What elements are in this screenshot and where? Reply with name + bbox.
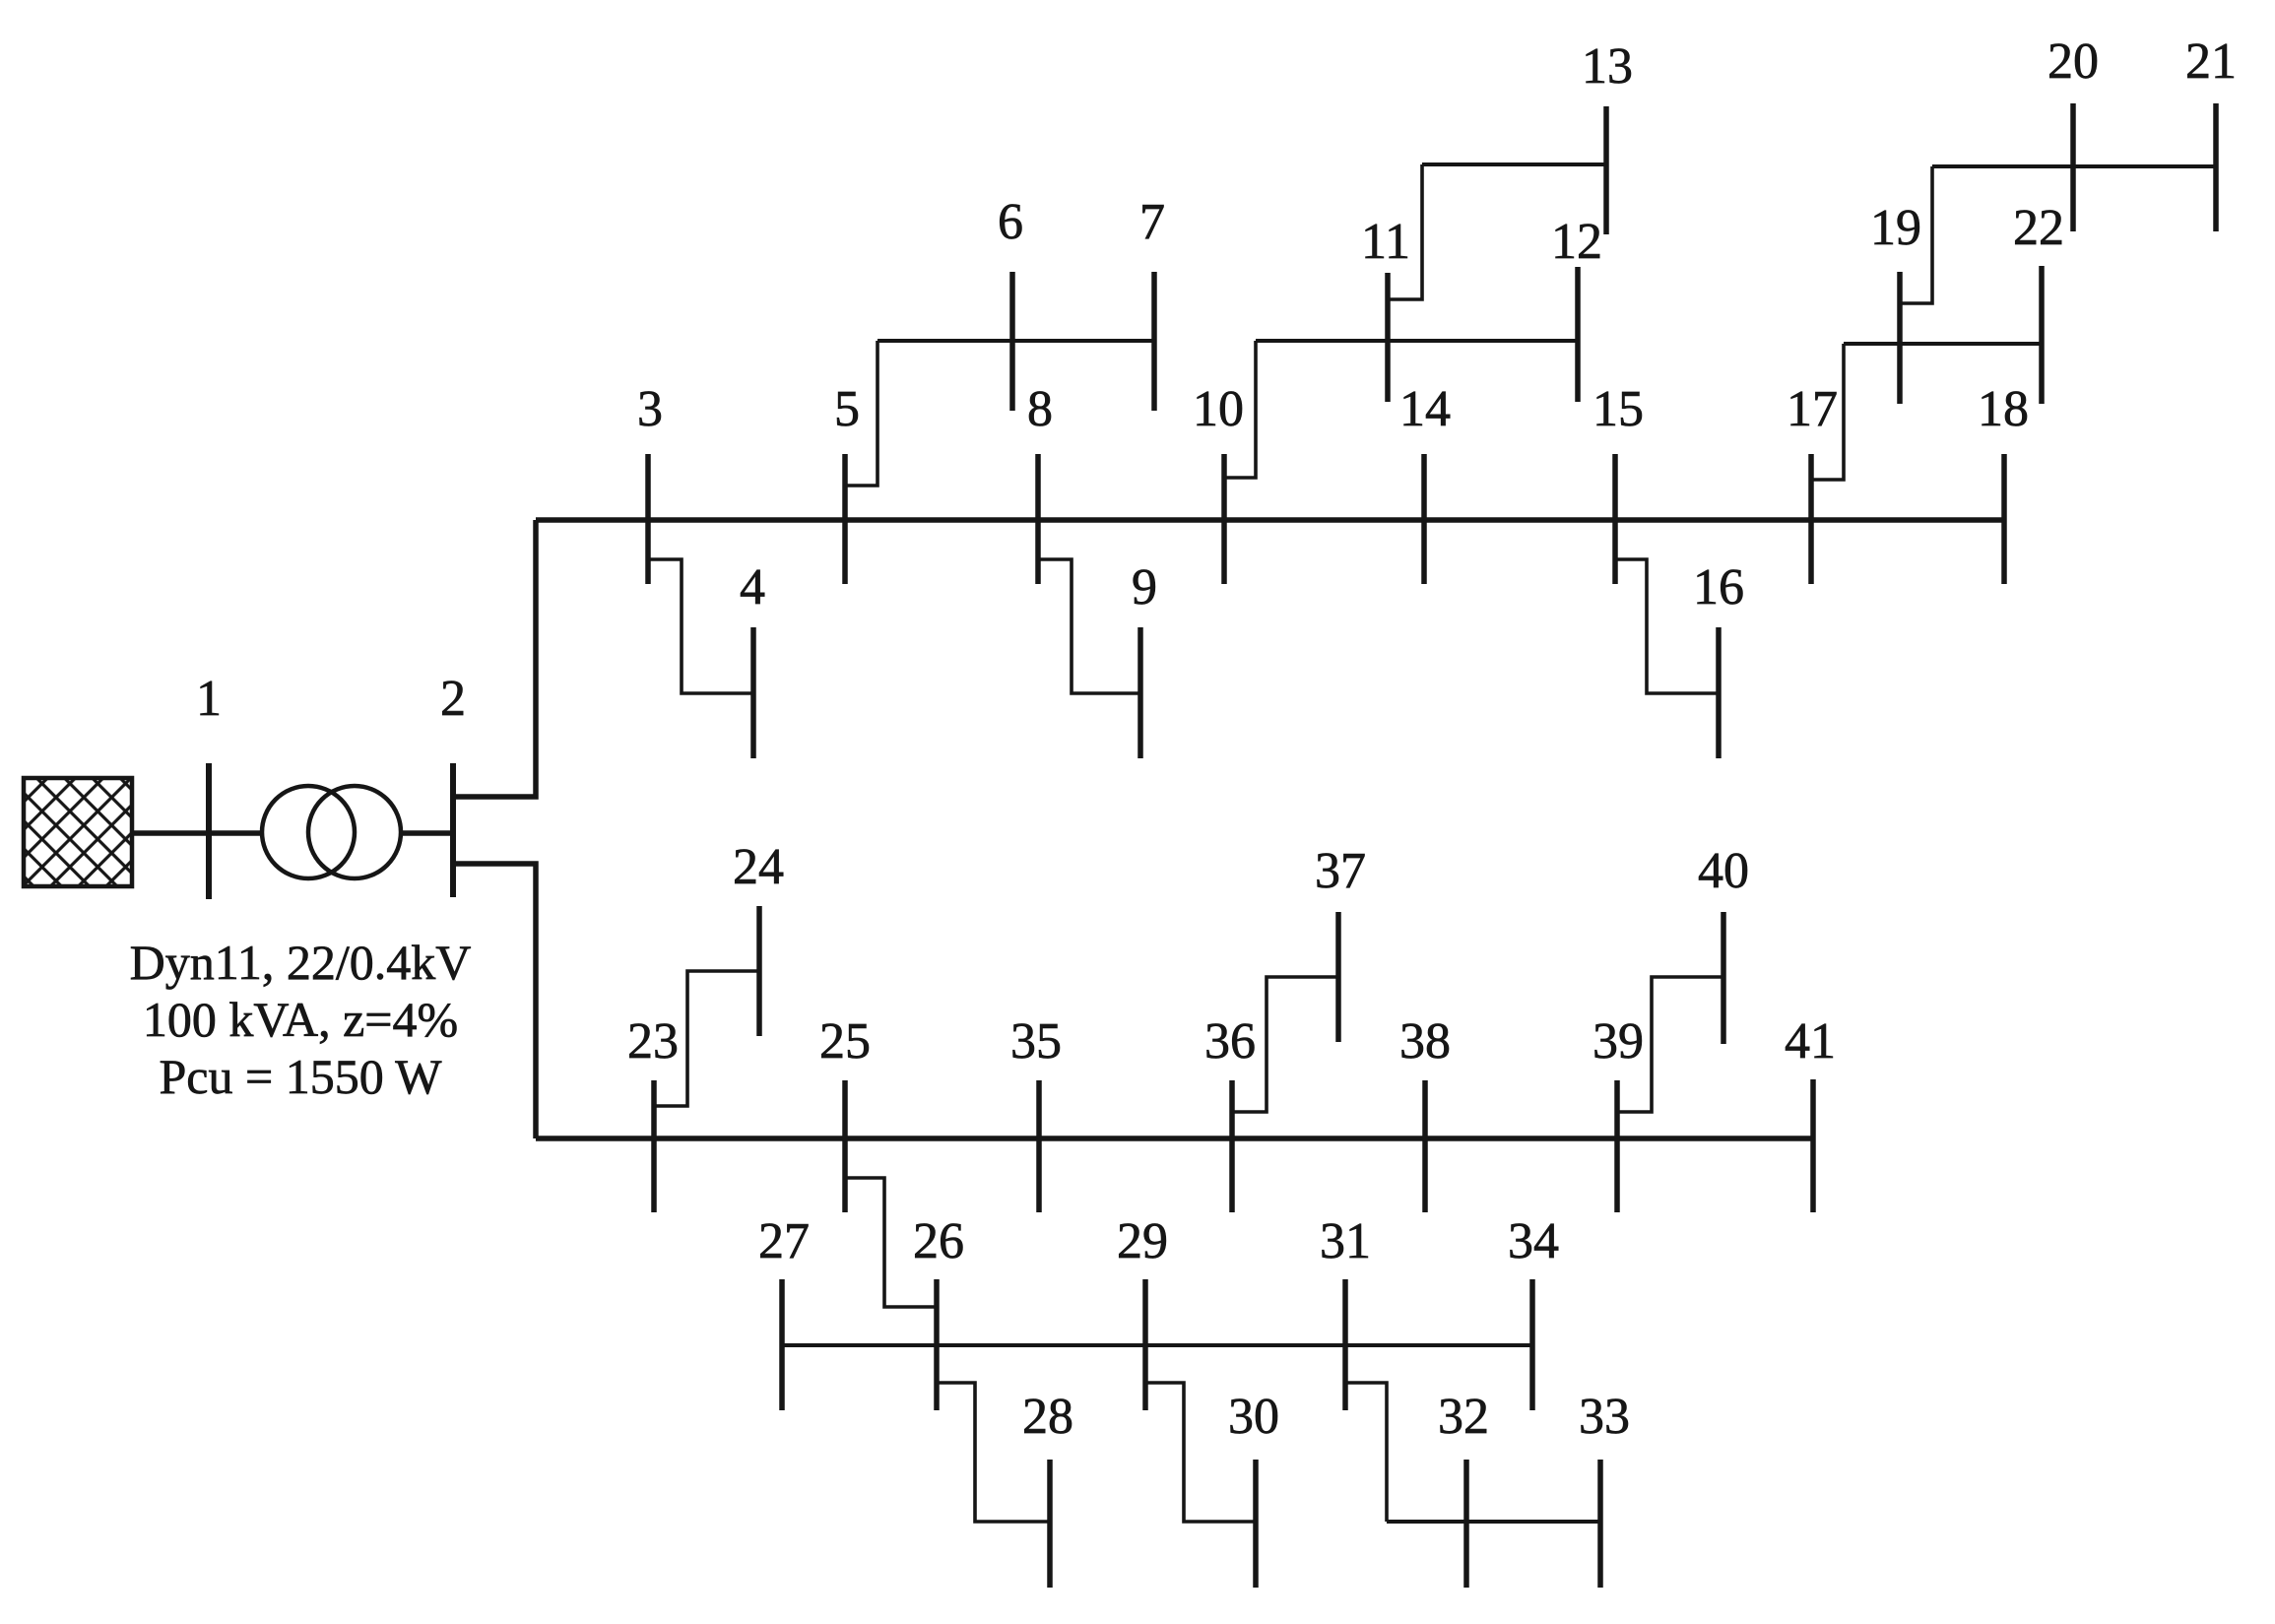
bus 16 bar xyxy=(1716,627,1722,758)
bus 12 end bar xyxy=(1575,267,1581,402)
svg-text:22: 22 xyxy=(2013,200,2064,256)
bus 40 bar xyxy=(1721,912,1726,1044)
external grid source square xyxy=(24,778,132,886)
wire step bus 8 to bus 9 xyxy=(1038,559,1140,693)
svg-text:32: 32 xyxy=(1438,1389,1489,1445)
svg-text:21: 21 xyxy=(2185,33,2237,90)
svg-text:Pcu = 1550 W: Pcu = 1550 W xyxy=(160,1049,443,1104)
svg-text:31: 31 xyxy=(1320,1213,1371,1269)
branch line to 13 xyxy=(1422,162,1606,166)
wire step bus 36 to bus 37 xyxy=(1232,977,1338,1112)
bus 25 tick xyxy=(842,1080,848,1212)
bus 14 tick xyxy=(1421,454,1427,584)
transformer T1 secondary circle xyxy=(308,786,401,878)
svg-text:4: 4 xyxy=(740,559,765,616)
branch line 6-7 xyxy=(877,339,1154,343)
bus 36 tick xyxy=(1229,1080,1235,1212)
branch line 32-33 xyxy=(1387,1520,1600,1524)
svg-text:10: 10 xyxy=(1193,381,1244,437)
bus 34 end bar xyxy=(1529,1279,1535,1410)
bus 23 tick xyxy=(651,1080,657,1212)
wire step bus 3 to bus 4 xyxy=(648,559,753,693)
svg-text:14: 14 xyxy=(1399,381,1451,437)
bus 37 bar xyxy=(1335,912,1341,1042)
svg-text:13: 13 xyxy=(1582,38,1633,95)
branch line 11-12 xyxy=(1256,339,1578,343)
bus 10 tick xyxy=(1221,454,1227,584)
svg-text:20: 20 xyxy=(2047,33,2099,90)
wire transformer to bus 2 xyxy=(401,830,455,836)
svg-text:24: 24 xyxy=(733,839,784,895)
svg-text:5: 5 xyxy=(834,381,860,437)
branch line 19-22 xyxy=(1844,342,2042,346)
bus 8 tick xyxy=(1035,454,1041,584)
wire step bus 17 to 19-22 branch xyxy=(1811,344,1844,480)
bus 28 bar xyxy=(1047,1460,1053,1588)
bus 11 bar xyxy=(1385,273,1391,402)
wire step bus 31 to 32-33 branch xyxy=(1345,1383,1387,1522)
bus 38 tick xyxy=(1422,1080,1428,1212)
wire step bus 26 to bus 28 xyxy=(937,1383,1050,1522)
svg-text:16: 16 xyxy=(1693,559,1744,616)
bus 26 bar xyxy=(934,1279,940,1410)
svg-text:26: 26 xyxy=(913,1213,964,1269)
bus 24 bar xyxy=(756,906,762,1036)
bus 32 bar xyxy=(1463,1460,1469,1588)
wire step bus 15 to bus 16 xyxy=(1615,559,1719,693)
svg-text:100 kVA, z=4%: 100 kVA, z=4% xyxy=(143,992,458,1047)
bus 27 end bar xyxy=(779,1279,785,1410)
svg-text:25: 25 xyxy=(819,1013,871,1070)
svg-text:33: 33 xyxy=(1579,1389,1630,1445)
wire step bus 11 to 13 xyxy=(1388,164,1422,299)
bus 41 end bar xyxy=(1810,1079,1816,1212)
svg-text:19: 19 xyxy=(1870,200,1921,256)
wire bus 2 to bottom feeder riser xyxy=(453,864,536,1138)
bus 21 end bar xyxy=(2213,103,2219,231)
svg-text:11: 11 xyxy=(1361,214,1410,270)
bus 19 bar xyxy=(1897,272,1903,404)
bus 22 end bar xyxy=(2039,266,2045,404)
branch line 20-21 xyxy=(1932,164,2216,168)
svg-text:2: 2 xyxy=(440,671,466,727)
bus 31 tick xyxy=(1342,1279,1348,1410)
svg-text:40: 40 xyxy=(1698,843,1749,899)
bus 7 end bar xyxy=(1151,272,1157,411)
svg-text:34: 34 xyxy=(1508,1213,1559,1269)
bus 39 tick xyxy=(1614,1080,1620,1212)
svg-text:37: 37 xyxy=(1315,843,1366,899)
bus 33 end bar xyxy=(1597,1460,1603,1588)
svg-text:30: 30 xyxy=(1228,1389,1279,1445)
bus 2 bar xyxy=(450,763,456,897)
wire grid to bus 1 xyxy=(132,830,264,836)
bus 9 bar xyxy=(1137,627,1143,758)
wire bus 2 to top feeder riser xyxy=(453,520,536,797)
sub-feeder line 27-34 xyxy=(782,1343,1532,1347)
svg-text:35: 35 xyxy=(1010,1013,1062,1070)
svg-text:Dyn11, 22/0.4kV: Dyn11, 22/0.4kV xyxy=(130,935,472,990)
wire step bus 39 to bus 40 xyxy=(1617,977,1723,1112)
wire step bus 19 to 20-21 branch xyxy=(1900,166,1932,303)
bottom feeder main line xyxy=(536,1136,1813,1141)
svg-text:15: 15 xyxy=(1592,381,1644,437)
wire step bus 10 to 11-12 branch xyxy=(1224,341,1256,478)
bus 3 tick xyxy=(645,454,651,584)
bus 18 end bar xyxy=(2001,454,2007,584)
svg-text:29: 29 xyxy=(1117,1213,1168,1269)
svg-text:8: 8 xyxy=(1027,381,1053,437)
top feeder main line xyxy=(536,517,2004,523)
wire step bus 29 to bus 30 xyxy=(1145,1383,1256,1522)
svg-text:3: 3 xyxy=(637,381,663,437)
svg-text:1: 1 xyxy=(196,671,222,727)
svg-text:36: 36 xyxy=(1204,1013,1256,1070)
svg-text:39: 39 xyxy=(1592,1013,1644,1070)
svg-text:38: 38 xyxy=(1399,1013,1451,1070)
bus 30 bar xyxy=(1253,1460,1259,1588)
svg-text:28: 28 xyxy=(1022,1389,1073,1445)
bus 35 tick xyxy=(1036,1080,1042,1212)
bus 1 bar xyxy=(206,763,212,899)
bus 29 tick xyxy=(1142,1279,1148,1410)
svg-text:18: 18 xyxy=(1978,381,2029,437)
bus 15 tick xyxy=(1612,454,1618,584)
wire step bus 25 to bus 26 xyxy=(845,1178,937,1307)
svg-text:7: 7 xyxy=(1139,194,1165,250)
transformer T1 primary circle xyxy=(262,786,355,878)
bus 5 tick xyxy=(842,454,848,584)
bus 6 bar xyxy=(1009,272,1015,411)
svg-text:6: 6 xyxy=(998,194,1023,250)
bus 13 end bar xyxy=(1603,106,1609,234)
svg-text:27: 27 xyxy=(758,1213,810,1269)
svg-text:9: 9 xyxy=(1132,559,1157,616)
bus 20 bar xyxy=(2070,103,2076,231)
svg-text:17: 17 xyxy=(1787,381,1838,437)
svg-text:23: 23 xyxy=(627,1013,679,1070)
svg-text:41: 41 xyxy=(1785,1013,1836,1070)
svg-text:12: 12 xyxy=(1551,214,1602,270)
wire step bus 23 to bus 24 xyxy=(654,971,759,1106)
bus 4 bar xyxy=(750,627,756,758)
wire step bus 5 to 6-7 branch xyxy=(845,341,877,486)
bus 17 tick xyxy=(1808,454,1814,584)
